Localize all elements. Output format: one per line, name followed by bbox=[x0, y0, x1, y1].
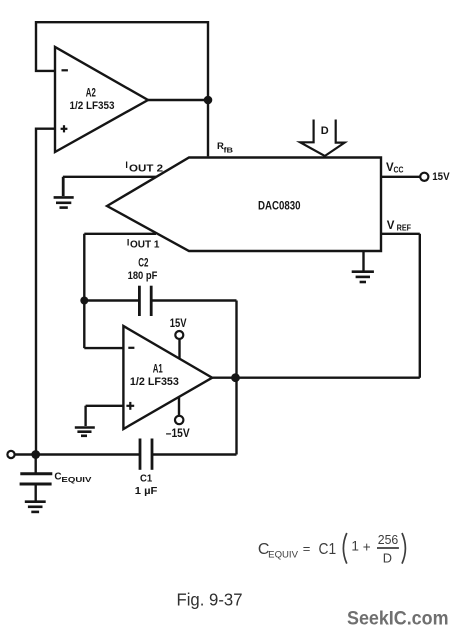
svg-text:15V: 15V bbox=[432, 171, 450, 183]
svg-text:CC: CC bbox=[394, 164, 404, 174]
svg-text:Fig. 9-37: Fig. 9-37 bbox=[177, 590, 243, 610]
svg-text:A2: A2 bbox=[86, 88, 96, 100]
svg-text:180 pF: 180 pF bbox=[128, 270, 158, 282]
svg-text:V: V bbox=[387, 220, 395, 232]
svg-text:SeekIC.com: SeekIC.com bbox=[347, 608, 449, 630]
svg-text:REF: REF bbox=[397, 222, 412, 232]
svg-text:15V: 15V bbox=[170, 316, 187, 330]
svg-text:EQUIV: EQUIV bbox=[61, 475, 91, 484]
svg-text:A1: A1 bbox=[153, 364, 163, 376]
svg-text:–15V: –15V bbox=[166, 428, 190, 440]
svg-text:C1: C1 bbox=[319, 541, 337, 558]
svg-text:DAC0830: DAC0830 bbox=[258, 198, 301, 212]
svg-text:fB: fB bbox=[224, 145, 234, 154]
svg-text:D: D bbox=[321, 125, 329, 137]
svg-text:+: + bbox=[363, 540, 371, 555]
svg-text:1/2 LF353: 1/2 LF353 bbox=[70, 100, 115, 112]
svg-text:EQUIV: EQUIV bbox=[268, 550, 298, 560]
svg-text:1: 1 bbox=[351, 539, 359, 554]
svg-text:=: = bbox=[303, 541, 311, 556]
svg-text:D: D bbox=[383, 550, 392, 565]
svg-text:1/2 LF353: 1/2 LF353 bbox=[130, 376, 179, 388]
svg-text:OUT 2: OUT 2 bbox=[129, 162, 163, 174]
svg-text:1 µF: 1 µF bbox=[135, 486, 158, 497]
svg-text:C2: C2 bbox=[138, 258, 148, 270]
svg-text:I: I bbox=[125, 160, 128, 170]
svg-text:OUT 1: OUT 1 bbox=[130, 240, 160, 251]
svg-text:256: 256 bbox=[378, 532, 399, 547]
svg-text:C1: C1 bbox=[140, 473, 152, 485]
